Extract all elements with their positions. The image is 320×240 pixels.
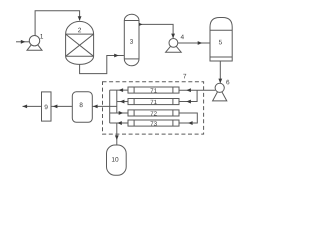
arrowhead into tube 72: [119, 111, 124, 115]
wire feed into pump 1: [16, 41, 29, 43]
pump P1: [27, 36, 42, 51]
arrowhead feed into pump 1: [21, 40, 26, 44]
arrowhead into vessel 2: [78, 16, 82, 21]
arrowhead into pump 4: [171, 34, 175, 39]
label 9: [45, 105, 48, 110]
arrowhead into box 9: [53, 105, 58, 109]
wire vessel3 top outlet to pump 4: [139, 24, 173, 37]
pump P4: [166, 39, 182, 53]
wire tube 71a left outlet: [110, 89, 128, 91]
label 1: [40, 34, 43, 38]
arrowhead into tube 73: [188, 121, 193, 125]
arrowhead product outlet left: [23, 105, 28, 109]
pump P6: [213, 83, 227, 101]
arrowhead at vessel3 outlet: [139, 23, 142, 26]
label 71b: [151, 100, 157, 104]
label 2: [78, 28, 81, 33]
arrowhead into vessel 3: [114, 54, 119, 58]
label 7: [183, 74, 186, 78]
vessel 3 (column): [124, 14, 139, 66]
wire inlet stub tube 72: [110, 112, 128, 114]
wire permeate line to box 8: [92, 105, 117, 107]
arrowhead into tank 10: [115, 135, 119, 140]
label 3: [130, 39, 133, 44]
label 8: [80, 103, 83, 108]
dashed unit 7 boundary: [103, 82, 204, 134]
wire manifold B: [116, 90, 118, 113]
label 71a: [151, 88, 157, 92]
tank 10: [107, 145, 127, 175]
label 73: [151, 121, 157, 125]
arrowhead out of tube 71a: [119, 88, 124, 92]
membrane tube 73: [128, 120, 179, 126]
wire pump6 to tube 71a feed: [179, 89, 215, 91]
wire tube 71b left outlet: [117, 101, 128, 103]
arrowhead out of tube 71b: [120, 100, 125, 104]
wire downpipe to tank 10: [116, 123, 118, 145]
wire vessel2 to vessel3: [80, 56, 124, 74]
wire outlet from box 9: [23, 105, 42, 107]
membrane tube 71b: [128, 99, 179, 105]
arrowhead into tube 71b: [186, 100, 191, 104]
membrane tube 72: [128, 110, 179, 116]
label 72: [151, 111, 157, 115]
wire tee down to tube 71b: [179, 90, 197, 101]
wire tube 72 outlet down to tube 73 inlet: [179, 113, 197, 123]
label 10: [112, 157, 118, 162]
label 5: [219, 40, 222, 45]
arrowhead into box 8: [93, 105, 98, 109]
wire box8 to box9: [51, 105, 72, 107]
box 9: [42, 92, 52, 121]
wire manifold A: [109, 90, 111, 123]
wire pump1 to vessel2 top: [35, 11, 80, 36]
arrowhead into tube 71a: [186, 88, 191, 92]
label 6: [226, 80, 229, 85]
wire pump4 to vessel 5: [178, 42, 210, 44]
arrowhead into vessel 5: [198, 41, 203, 45]
arrowhead out of tube 73: [117, 121, 122, 125]
wire vessel5 to pump 6: [219, 61, 221, 83]
label 4: [181, 35, 184, 39]
box 8 (condenser): [72, 92, 92, 123]
membrane tube 71a: [128, 87, 179, 93]
vessel 5 (dome top tank): [210, 18, 232, 62]
wire tube 73 outlet stub: [110, 122, 128, 124]
arrowhead into pump 6: [218, 79, 222, 84]
vessel 2 (column with X): [66, 21, 94, 64]
